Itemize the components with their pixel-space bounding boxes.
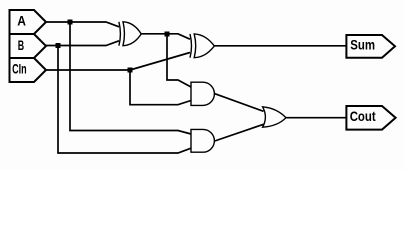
and gate U3 ((A xor B) and CIn) (191, 82, 214, 105)
wire A branch to AND2 top input (70, 22, 191, 134)
node junction on wire CIn (128, 68, 133, 73)
output tag Sum (346, 35, 395, 58)
wire XOR1 output branch to AND1 top input (167, 34, 191, 87)
input tag CIn (10, 58, 47, 82)
wire AND2 output to OR input (215, 124, 264, 141)
wire B to XOR1 input (46, 41, 119, 46)
or gate U5 (Cout) (263, 107, 286, 127)
wire OR output to Cout (286, 117, 347, 119)
node junction on XOR1 output (165, 32, 170, 37)
wire CIn to XOR2 bottom input (130, 53, 190, 71)
wire CIn branch to AND1 bottom input (130, 70, 191, 105)
svg-text:B: B (18, 37, 24, 53)
input tag A (10, 10, 47, 34)
and gate U4 (A and B) (191, 129, 214, 152)
wire A to XOR1 input (46, 22, 119, 27)
wire B branch to AND2 bottom input (58, 46, 191, 154)
input tag B (10, 34, 47, 58)
svg-text:A: A (17, 13, 26, 29)
svg-text:Sum: Sum (350, 37, 375, 53)
xor gate U1 (A xor B) (119, 22, 141, 46)
node junction on wire A (68, 20, 73, 25)
wire XOR1 output to XOR2 top input (141, 34, 190, 39)
output tag Cout (346, 106, 395, 130)
xor gate U2 (sum = (A xor B) xor CIn) (190, 34, 214, 58)
svg-text:Cout: Cout (350, 108, 376, 124)
wire CIn (45, 69, 130, 71)
node junction on wire B (56, 43, 61, 48)
wire AND1 output to OR input (215, 94, 264, 112)
svg-text:CIn: CIn (12, 60, 27, 76)
wire XOR2 output to Sum (215, 45, 348, 47)
